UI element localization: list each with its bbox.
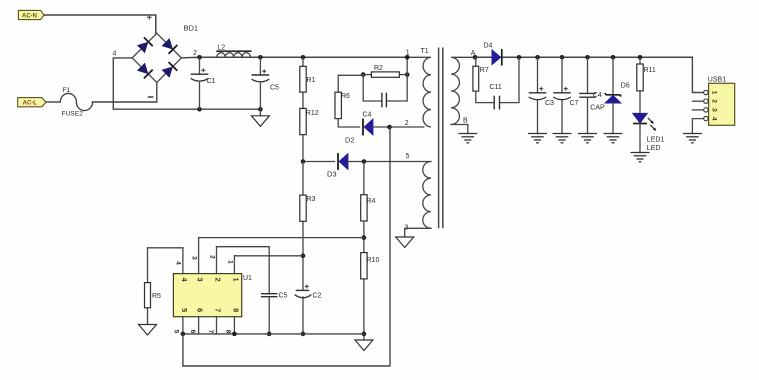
svg-text:L2: L2: [217, 44, 225, 51]
wire R12 node to D3: [303, 161, 335, 163]
wire rail to USB pin 1: [692, 57, 703, 92]
svg-text:C11: C11: [490, 84, 502, 91]
svg-text:1: 1: [710, 91, 717, 95]
svg-text:7: 7: [207, 330, 214, 334]
U1 pin 1 outside label: [227, 260, 234, 264]
node T1 pin 1 junction: [405, 55, 410, 60]
capacitor C2: [295, 284, 322, 334]
svg-text:1: 1: [227, 260, 234, 264]
wire ground bus: [183, 333, 364, 335]
U1 pin 7 outside label: [207, 330, 214, 334]
svg-text:FUSE2: FUSE2: [62, 111, 84, 118]
capacitor C4 CAP: [579, 57, 605, 133]
svg-text:C7: C7: [570, 100, 579, 107]
label T1 pin 1: [406, 50, 410, 57]
svg-text:2: 2: [710, 99, 717, 103]
USB pin 3 stub: [692, 109, 703, 111]
wire R5 to ground: [147, 308, 149, 325]
label BD1: [184, 24, 199, 33]
U1 pin 8 outside label: [225, 330, 232, 334]
svg-text:5: 5: [173, 330, 180, 334]
capacitor C11: [476, 57, 519, 109]
ground T1 pin 3: [396, 236, 414, 248]
svg-text:4: 4: [113, 51, 117, 58]
svg-text:T1: T1: [421, 48, 429, 55]
svg-text:B: B: [463, 118, 468, 125]
svg-text:7: 7: [214, 308, 223, 312]
svg-text:U1: U1: [243, 275, 252, 282]
wire R1 to R12: [302, 92, 304, 108]
svg-text:D3: D3: [327, 169, 337, 178]
USB pin 4 to ground: [692, 119, 703, 134]
label T1 pin 5: [406, 153, 410, 160]
svg-text:BD1: BD1: [184, 24, 199, 33]
svg-text:D2: D2: [345, 135, 355, 144]
svg-text:LED: LED: [647, 145, 661, 152]
U1 pin 4 outside label: [175, 261, 182, 265]
wire T1 pin 3 to ground: [405, 228, 431, 237]
svg-text:8: 8: [225, 330, 232, 334]
connector USB1: [704, 77, 735, 126]
svg-text:5: 5: [180, 308, 189, 312]
node R1 top junction: [301, 55, 306, 60]
resistor R10: [361, 253, 380, 279]
resistor R7: [473, 57, 489, 91]
node bridge output junction: [197, 55, 202, 60]
svg-text:C5: C5: [270, 85, 279, 92]
svg-text:2: 2: [209, 255, 216, 259]
ground under D6: [604, 134, 623, 143]
bridge pin 4 label: [113, 51, 117, 58]
net label AC-L: [18, 98, 46, 107]
capacitor C5 (U1): [261, 293, 288, 334]
node R4 top junction: [362, 159, 367, 164]
svg-text:3: 3: [196, 278, 205, 282]
ground under C3: [528, 134, 547, 143]
svg-text:3: 3: [191, 256, 198, 260]
node R10 bus junction: [362, 332, 367, 337]
node C4 junction: [585, 55, 590, 60]
U1 pin 1 stub: [233, 256, 235, 274]
node C5 bus junction: [267, 332, 272, 337]
svg-text:2: 2: [214, 278, 223, 282]
op-amp U1 PWM controller IC: [173, 274, 252, 317]
svg-text:R1: R1: [307, 77, 316, 84]
svg-text:5: 5: [406, 153, 410, 160]
node pin1 line junction: [301, 254, 306, 259]
diode D4: [475, 43, 502, 66]
wire R3 to C2 column: [302, 221, 304, 290]
resistor R4: [361, 162, 376, 222]
wire fuse to bridge - terminal: [93, 83, 157, 102]
wire R10 to ground bus: [363, 279, 365, 340]
label T1 pin 3: [405, 225, 409, 232]
svg-text:1: 1: [406, 50, 410, 57]
ground under R10: [355, 339, 373, 351]
svg-text:2: 2: [193, 50, 197, 57]
svg-text:6: 6: [189, 330, 196, 334]
svg-text:1: 1: [231, 278, 240, 282]
U1 pin 4 stub: [182, 248, 184, 274]
node C7 junction: [560, 55, 565, 60]
svg-text:R12: R12: [306, 110, 319, 117]
svg-text:R10: R10: [367, 257, 380, 264]
U1 pin 6 stub: [198, 317, 200, 334]
U1 pin 7 stub: [216, 317, 218, 334]
wire AC-N to bridge + terminal: [44, 15, 156, 33]
svg-text:USB1: USB1: [708, 77, 726, 84]
ground under input filter C5: [251, 115, 269, 127]
snubber capacitor (parallel with R2): [363, 75, 407, 108]
svg-text:R3: R3: [307, 196, 316, 203]
node C1 bottom junction: [197, 107, 202, 112]
node D3 left junction: [301, 159, 306, 164]
net label AC-N: [18, 10, 44, 19]
svg-text:3: 3: [710, 108, 717, 112]
diode D3: [327, 153, 348, 178]
resistor R1: [300, 57, 316, 92]
label node B: [463, 118, 468, 125]
transformer T1 primary winding pins 5-3: [423, 162, 431, 229]
USB pin 2 stub: [692, 100, 703, 102]
svg-text:D4: D4: [484, 43, 493, 50]
transformer T1 secondary winding A-B: [451, 57, 475, 124]
svg-text:R2: R2: [374, 65, 383, 72]
capacitor C7: [553, 57, 578, 133]
svg-text:C5: C5: [279, 293, 288, 300]
U1 pin 5 outside label: [173, 330, 180, 334]
wire drain loop to D2 node: [183, 127, 390, 366]
wire U1 pin 2 to C5: [217, 247, 270, 294]
ground node B: [458, 134, 477, 143]
wire U1 pin 3 to R4-R10 node: [199, 237, 364, 239]
transformer T1 primary winding pins 1-2: [407, 57, 431, 127]
wire pin1 to snubber: [406, 57, 408, 74]
svg-text:8: 8: [231, 308, 240, 312]
svg-text:R11: R11: [644, 67, 656, 74]
diode D2: [345, 112, 373, 145]
svg-text:4: 4: [175, 261, 182, 265]
resistor R6: [335, 75, 363, 127]
svg-text:AC-L: AC-L: [23, 101, 38, 107]
LED LED1: [633, 91, 665, 153]
wire D3 to T1 pin 5: [348, 161, 431, 163]
bridge pin 2 label: [193, 50, 197, 57]
ground under R5: [139, 324, 157, 336]
inductor L2: [216, 44, 251, 57]
svg-text:4: 4: [710, 117, 717, 121]
U1 pin 2 outside label: [209, 255, 216, 259]
resistor R12: [300, 108, 319, 134]
ground under C7: [553, 134, 572, 143]
bridge + pin label: [147, 15, 152, 20]
fuse F1 FUSE2: [46, 87, 93, 118]
label node A: [471, 50, 476, 57]
transformer T1 core: [439, 48, 443, 229]
resistor R5: [145, 283, 162, 308]
ground under USB: [683, 134, 702, 143]
zener diode D6: [605, 57, 630, 133]
wire secondary output rail: [475, 56, 692, 58]
node pin8 bus junction: [232, 332, 237, 337]
svg-text:LED1: LED1: [647, 137, 665, 144]
svg-text:AC-N: AC-N: [22, 14, 37, 20]
svg-text:6: 6: [196, 308, 205, 312]
wire R12 to D3 node: [302, 135, 304, 162]
label T1 pin 2: [405, 120, 409, 127]
svg-text:C4: C4: [593, 92, 602, 99]
node C3 junction: [535, 55, 540, 60]
wire T1 pin B to ground: [451, 125, 468, 134]
svg-text:C2: C2: [313, 293, 322, 300]
U1 pin 8 stub: [233, 317, 235, 334]
ground under C4: [578, 134, 597, 143]
svg-text:D6: D6: [621, 82, 630, 89]
U1 pin 5 stub: [182, 317, 184, 334]
U1 pin 3 stub: [198, 238, 200, 274]
node D2 anode junction: [387, 125, 392, 130]
node D4 cathode junction: [517, 55, 522, 60]
label T1: [421, 48, 429, 55]
capacitor C3: [529, 57, 554, 133]
svg-text:R6: R6: [341, 93, 350, 100]
svg-text:C3: C3: [545, 100, 554, 107]
U1 pin 6 outside label: [189, 330, 196, 334]
node C2 bus junction: [301, 332, 306, 337]
bridge - pin label: [148, 96, 154, 98]
wire U1 pin 4 to R5: [148, 248, 183, 283]
wire R4 to R10: [363, 221, 365, 253]
svg-text:C1: C1: [207, 78, 216, 85]
node pin5 bus junction: [181, 332, 186, 337]
node pin3 feedback junction: [362, 235, 367, 240]
U1 pin 3 outside label: [191, 256, 198, 260]
wire bridge + output rail: [181, 56, 407, 59]
capacitor C1: [191, 57, 216, 109]
node snubber left: [361, 72, 366, 77]
svg-text:F1: F1: [63, 87, 71, 94]
node A junction: [473, 55, 478, 60]
svg-text:CAP: CAP: [590, 105, 605, 112]
svg-text:R4: R4: [367, 198, 376, 205]
svg-text:C4: C4: [363, 112, 372, 119]
node L2 output junction: [258, 55, 263, 60]
wire D2 to T1 pin 2: [373, 126, 424, 128]
wire bridge pin 4 to negative rail: [113, 58, 260, 109]
node R11 junction: [638, 55, 643, 60]
node D6 junction: [611, 55, 616, 60]
resistor R11: [637, 57, 656, 91]
ground under LED1: [631, 153, 650, 162]
resistor R3: [300, 162, 316, 222]
svg-text:2: 2: [405, 120, 409, 127]
wire U1 pin 1 to C2 column: [234, 255, 303, 257]
bridge rectifier BD1: [132, 33, 181, 82]
svg-text:R5: R5: [152, 293, 161, 300]
svg-text:R7: R7: [480, 67, 489, 74]
resistor R2: [363, 65, 407, 77]
U1 pin 2 stub: [216, 247, 218, 274]
node C8 bottom junction: [258, 107, 263, 112]
capacitor C5 input filter: [252, 57, 279, 116]
node snubber right junction pin1: [405, 72, 410, 77]
